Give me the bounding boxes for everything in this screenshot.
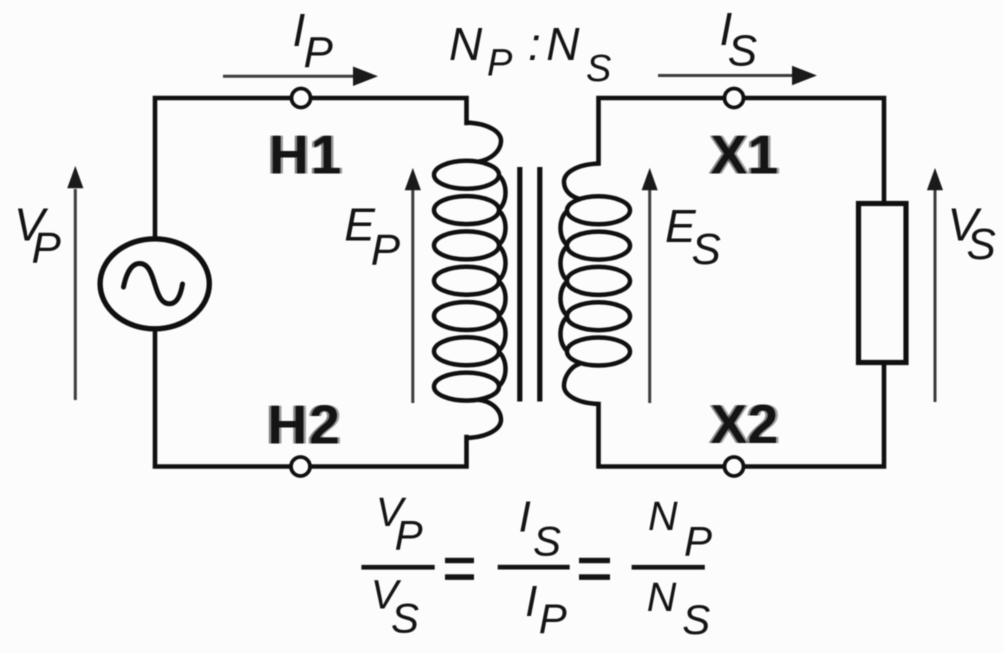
- svg-text:N: N: [647, 574, 677, 620]
- svg-text:S: S: [728, 27, 757, 76]
- svg-text:N: N: [648, 493, 678, 539]
- svg-text:X1: X1: [711, 124, 779, 186]
- svg-text:P: P: [304, 28, 334, 77]
- svg-text:P: P: [487, 43, 513, 85]
- svg-text::: :: [528, 18, 541, 70]
- svg-text:N: N: [449, 18, 483, 70]
- svg-text:P: P: [395, 511, 423, 558]
- svg-text:S: S: [692, 225, 721, 274]
- svg-text:S: S: [533, 518, 561, 565]
- svg-text:S: S: [967, 220, 996, 269]
- svg-text:S: S: [391, 595, 419, 642]
- svg-text:H2: H2: [268, 393, 342, 455]
- svg-text:P: P: [539, 595, 567, 642]
- svg-text:S: S: [586, 48, 611, 90]
- svg-text:I: I: [525, 577, 537, 626]
- svg-text:I: I: [519, 492, 531, 541]
- svg-text:H1: H1: [269, 124, 343, 186]
- svg-text:S: S: [682, 596, 710, 643]
- svg-text:P: P: [684, 518, 712, 565]
- svg-text:P: P: [371, 226, 401, 275]
- svg-text:N: N: [546, 18, 580, 70]
- svg-text:X2: X2: [711, 393, 779, 455]
- svg-text:P: P: [32, 224, 62, 273]
